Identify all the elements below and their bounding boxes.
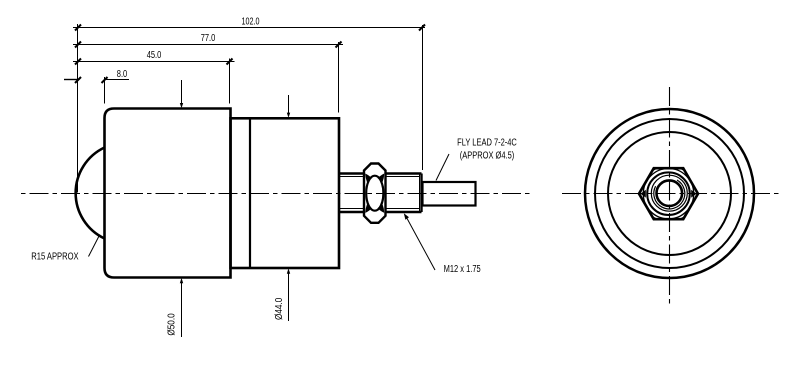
svg-text:M12 x 1.75: M12 x 1.75: [444, 263, 481, 274]
svg-text:R15 APPROX: R15 APPROX: [31, 250, 78, 261]
svg-text:45.0: 45.0: [147, 49, 162, 60]
svg-text:77.0: 77.0: [201, 32, 216, 43]
svg-text:102.0: 102.0: [242, 15, 260, 26]
svg-text:Ø44.0: Ø44.0: [273, 298, 284, 320]
svg-text:(APPROX Ø4.5): (APPROX Ø4.5): [460, 149, 515, 160]
svg-text:FLY LEAD 7-2-4C: FLY LEAD 7-2-4C: [457, 136, 517, 147]
svg-text:Ø50.0: Ø50.0: [166, 313, 177, 335]
svg-text:8.0: 8.0: [117, 68, 127, 79]
